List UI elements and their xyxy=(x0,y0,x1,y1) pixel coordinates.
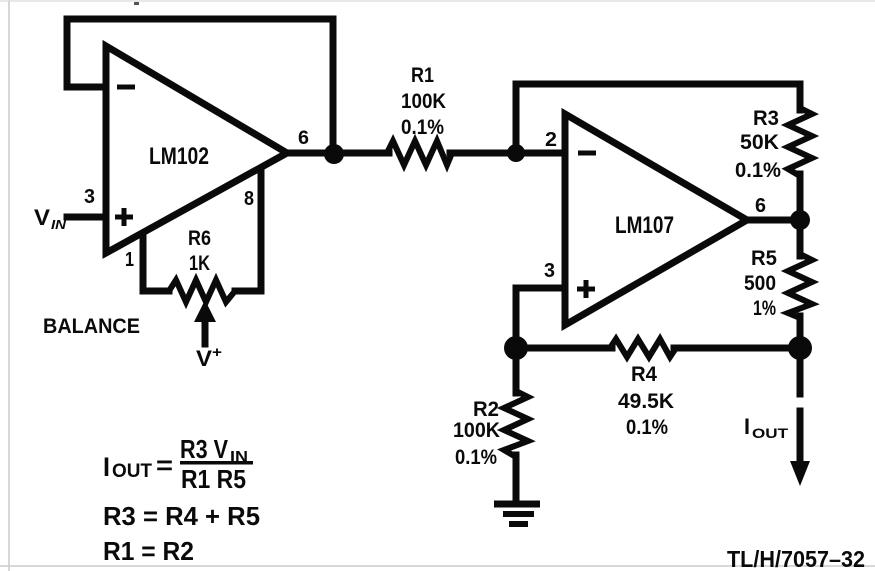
svg-text:50K: 50K xyxy=(740,131,779,154)
svg-text:R1 R5: R1 R5 xyxy=(181,464,246,494)
svg-text:R3 = R4 + R5: R3 = R4 + R5 xyxy=(103,501,260,531)
wire: summing junction up and over to R3 top xyxy=(516,84,800,150)
svg-text:R4: R4 xyxy=(631,363,657,386)
svg-text:=: = xyxy=(156,450,173,480)
label R1 value xyxy=(401,64,446,139)
svg-text:V: V xyxy=(34,205,50,230)
resistor R5 xyxy=(788,254,812,318)
wire: LM107 output to R3/R5 junction xyxy=(747,217,797,224)
svg-text:500: 500 xyxy=(744,272,776,295)
node: LM107 output junction xyxy=(790,210,810,230)
svg-text:3: 3 xyxy=(84,186,95,208)
wire: bottom-left junction to R2 xyxy=(513,348,520,393)
op-amp LM102 xyxy=(106,46,287,253)
svg-text:LM102: LM102 xyxy=(149,143,209,170)
resistor R3 xyxy=(788,108,812,176)
svg-text:R2: R2 xyxy=(473,398,499,421)
svg-text:R6: R6 xyxy=(188,227,211,250)
wire: LM102 output feedback loop to inverting input xyxy=(67,19,333,150)
svg-text:V: V xyxy=(196,346,212,371)
wire: IOUT output arrow xyxy=(790,348,810,486)
svg-text:OUT: OUT xyxy=(112,461,152,482)
svg-text:OUT: OUT xyxy=(752,425,789,441)
node: bottom left junction xyxy=(504,336,528,360)
resistor R1 xyxy=(387,141,452,165)
svg-text:+: + xyxy=(212,344,222,361)
label R4 value xyxy=(618,363,674,439)
svg-text:100K: 100K xyxy=(453,419,500,442)
wire: pin 1 to R6 left end xyxy=(143,234,169,291)
svg-text:R3: R3 xyxy=(753,107,779,130)
svg-text:3: 3 xyxy=(544,260,555,282)
wire: R1 to LM107 pin 2 xyxy=(450,150,563,157)
wire: R5 bottom to bottom-right junction xyxy=(797,316,804,345)
svg-text:R3 V: R3 V xyxy=(180,434,229,464)
svg-text:I: I xyxy=(103,452,110,482)
svg-text:R5: R5 xyxy=(751,247,777,270)
wire: bottom net left segment xyxy=(516,345,612,352)
label R3 value xyxy=(735,107,781,182)
label R5 value xyxy=(744,247,777,320)
potentiometer R6 xyxy=(169,280,235,344)
wire: R3 bottom to output node xyxy=(797,174,804,218)
svg-text:49.5K: 49.5K xyxy=(618,390,674,413)
wire: bottom net right segment xyxy=(674,345,800,352)
ground xyxy=(494,504,540,524)
svg-text:IN: IN xyxy=(51,217,67,232)
svg-text:LM107: LM107 xyxy=(615,212,674,239)
svg-text:1: 1 xyxy=(125,249,134,271)
svg-text:100K: 100K xyxy=(401,90,446,113)
node VIN label xyxy=(34,205,67,232)
svg-text:6: 6 xyxy=(298,128,309,149)
equation IOUT = R3 VIN / R1 R5 xyxy=(103,434,253,494)
wire: pin 8 to R6 right end xyxy=(235,169,261,291)
svg-text:I: I xyxy=(744,414,750,439)
svg-text:1%: 1% xyxy=(753,297,776,320)
label R6 value xyxy=(188,227,211,275)
node: summing junction at pin 2 xyxy=(507,144,525,162)
node: bottom right junction xyxy=(788,336,812,360)
resistor R2 xyxy=(504,391,528,457)
svg-text:2: 2 xyxy=(545,129,557,151)
svg-text:0.1%: 0.1% xyxy=(626,416,668,439)
svg-text:6: 6 xyxy=(755,195,766,217)
wire: VIN input to pin 3 xyxy=(67,214,103,221)
wire: R2 to ground xyxy=(513,455,520,502)
svg-text:1K: 1K xyxy=(189,252,210,275)
svg-text:0.1%: 0.1% xyxy=(735,159,781,182)
svg-text:BALANCE: BALANCE xyxy=(43,315,140,338)
label IOUT xyxy=(744,414,789,441)
op-amp LM107 xyxy=(565,114,747,325)
svg-text:8: 8 xyxy=(244,188,254,210)
svg-text:R1 = R2: R1 = R2 xyxy=(103,536,194,566)
node V+ supply xyxy=(196,344,222,371)
svg-text:R1: R1 xyxy=(411,64,434,87)
svg-text:0.1%: 0.1% xyxy=(401,116,444,139)
label R2 value xyxy=(453,398,500,469)
node: LM102 output junction xyxy=(324,144,344,164)
wire: LM102 output to R1 xyxy=(287,150,389,157)
resistor R4 xyxy=(610,339,676,357)
svg-text:0.1%: 0.1% xyxy=(455,446,497,469)
wire: output node to R5 top xyxy=(797,222,804,256)
svg-text:TL/H/7057–32: TL/H/7057–32 xyxy=(727,546,865,571)
wire: pin 3 to bottom-left junction xyxy=(516,288,563,345)
